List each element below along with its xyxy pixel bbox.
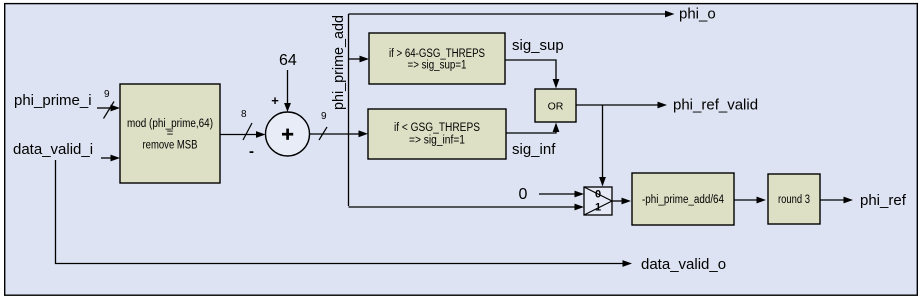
svg-text:=> sig_sup=1: => sig_sup=1: [408, 60, 467, 72]
svg-text:sig_inf: sig_inf: [512, 141, 556, 158]
wire divide block to round block: [734, 197, 766, 204]
svg-text:64: 64: [279, 52, 297, 69]
adder U2 summing junction: [266, 112, 310, 156]
bus slash 9 on adder output: [319, 111, 327, 140]
block U3 if > 64-GSG_THREPS: [369, 33, 505, 84]
node constant 64 label: [279, 52, 297, 69]
svg-text:round 3: round 3: [778, 194, 810, 206]
bus slash 8: [241, 109, 252, 140]
wire 64 into adder top: [284, 70, 291, 112]
svg-text:data_valid_o: data_valid_o: [641, 256, 726, 273]
svg-text:phi_prime_i: phi_prime_i: [14, 92, 92, 109]
svg-text:1: 1: [595, 202, 601, 214]
wire 0 into mux input 0: [539, 191, 584, 198]
wire OR output to phi_ref_valid: [576, 102, 667, 109]
wire if-greater output to OR top: [505, 60, 559, 89]
svg-text:+: +: [271, 93, 279, 108]
svg-text:=> sig_inf=1: => sig_inf=1: [409, 135, 465, 147]
adder plus sign label (top input): [271, 93, 279, 108]
wire node to if-greater block: [349, 56, 370, 63]
svg-text:data_valid_i: data_valid_i: [13, 141, 93, 158]
wire node to if-less block: [349, 130, 369, 137]
wire top to phi_o: [349, 11, 675, 18]
wire phi_prime_add vertical node line: [348, 14, 350, 206]
wire data_valid_i down and across bottom to data_valid_o: [56, 160, 633, 267]
node sig_inf label: [512, 141, 556, 158]
svg-text:phi_prime_add: phi_prime_add: [330, 15, 347, 110]
wire phi_prime_i to mod block: [97, 105, 120, 112]
wire data_valid_i to mod block: [101, 155, 120, 162]
block U4 if < GSG_THREPS: [368, 109, 506, 159]
node phi_prime_add rotated label: [330, 15, 347, 110]
node phi_o label: [679, 6, 716, 23]
svg-text:=: =: [167, 128, 174, 140]
mux U6 2-to-1: [584, 187, 612, 215]
bus slash 9 on phi_prime_i: [104, 89, 115, 119]
block U7 -phi_prime_add/64: [632, 173, 734, 225]
wire mux output to divide block: [612, 198, 631, 205]
wire adder output to node: [310, 133, 349, 135]
gate U5 OR: [535, 89, 576, 122]
block U8 round 3: [768, 174, 820, 224]
svg-text:phi_o: phi_o: [679, 6, 716, 23]
wire if-less output to OR bottom: [506, 123, 559, 134]
svg-text:if < GSG_THREPS: if < GSG_THREPS: [394, 122, 480, 134]
node phi_ref label: [860, 192, 907, 209]
svg-text:-phi_prime_add/64: -phi_prime_add/64: [642, 194, 725, 206]
svg-text:0: 0: [595, 189, 601, 201]
svg-text:9: 9: [321, 111, 327, 122]
wire round block to phi_ref: [820, 197, 853, 204]
svg-text:if > 64-GSG_THREPS: if > 64-GSG_THREPS: [389, 48, 485, 60]
svg-text:OR: OR: [548, 101, 564, 113]
node data_valid_i label: [13, 141, 93, 158]
svg-text:-: -: [249, 143, 254, 160]
wire node down to mux input 1: [349, 204, 585, 211]
wire mod block to adder: [220, 131, 266, 138]
svg-text:sig_sup: sig_sup: [512, 37, 564, 54]
node phi_prime_i label: [14, 92, 92, 109]
svg-text:8: 8: [241, 109, 247, 120]
node phi_ref_valid label: [673, 97, 758, 114]
node sig_sup label: [512, 37, 564, 54]
wire OR branch down to mux select: [599, 105, 606, 187]
adder minus sign label (left input): [249, 143, 254, 160]
node constant 0 label: [519, 186, 528, 203]
block U1 mod(phi_prime,64) remove MSB: [120, 84, 220, 183]
svg-text:9: 9: [104, 89, 110, 100]
svg-text:0: 0: [519, 186, 528, 203]
svg-text:phi_ref: phi_ref: [860, 192, 907, 209]
svg-text:phi_ref_valid: phi_ref_valid: [673, 97, 758, 114]
svg-text:remove MSB: remove MSB: [143, 140, 198, 152]
node data_valid_o label: [641, 256, 726, 273]
